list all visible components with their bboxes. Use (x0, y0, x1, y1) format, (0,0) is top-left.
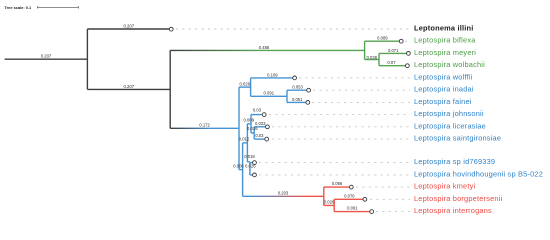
node N1 vertical (250, 115, 252, 133)
leaf node Leptospira hovindhougenii (253, 173, 257, 177)
svg-text:0.203: 0.203 (278, 190, 289, 195)
svg-text:0.076: 0.076 (344, 193, 355, 198)
svg-text:0.089: 0.089 (377, 36, 388, 41)
svg-text:Leptospira biflexa: Leptospira biflexa (414, 36, 476, 45)
branch node N2 0.016 (251, 132, 254, 134)
branch node A 0.207 (87, 88, 170, 90)
leader line Leptospira wolffii (299, 77, 410, 79)
svg-text:0.026: 0.026 (245, 163, 256, 168)
leader line Leptospira borgpetersenii (370, 198, 410, 200)
leader line Leptospira fainei (312, 101, 410, 103)
node B vertical (238, 87, 240, 170)
wire root branch 0.207 (5, 58, 88, 60)
branch blue clade 0.172 (170, 127, 239, 129)
svg-text:0.207: 0.207 (41, 54, 52, 59)
branch node T 0.012 (243, 142, 248, 144)
svg-text:0.026: 0.026 (324, 200, 335, 205)
leader line Leptospira johnsonii (269, 114, 410, 116)
branch Leptospira meyeri 0.071 (379, 52, 407, 54)
svg-text:0.071: 0.071 (388, 48, 399, 53)
svg-text:0.03: 0.03 (255, 133, 264, 138)
wire root vertical (86, 29, 88, 89)
leader line Leptospira saintgironsiae (272, 138, 410, 140)
node G vertical (364, 41, 366, 59)
branch Leptonema illini 0.207 (87, 28, 170, 30)
species name labels (414, 24, 543, 216)
branch Leptospira sp id769339 (250, 162, 253, 164)
svg-text:Leptospira sp id769339: Leptospira sp id769339 (414, 157, 495, 166)
branch Leptospira saintgironsiae 0.03 (254, 138, 265, 140)
svg-text:Leptonema illini: Leptonema illini (414, 24, 473, 33)
branch Leptospira interrogans 0.091 (334, 211, 370, 213)
node C vertical (250, 78, 252, 96)
leader line Leptospira biflexa (405, 40, 411, 42)
svg-text:0.016: 0.016 (247, 126, 258, 131)
node T vertical (246, 124, 248, 162)
svg-text:Leptospira hovindhougenii sp B: Leptospira hovindhougenii sp B5-022 (414, 169, 543, 178)
svg-text:Leptospira interrogans: Leptospira interrogans (414, 206, 492, 215)
svg-text:0.109: 0.109 (267, 72, 278, 77)
svg-text:0.066: 0.066 (332, 181, 343, 186)
svg-text:0.029: 0.029 (240, 82, 251, 87)
branch Leptospira johnsonii 0.03 (251, 114, 263, 116)
leaf node Leptospira wolffii (293, 76, 297, 80)
node E vertical (323, 187, 325, 205)
svg-text:0.006: 0.006 (233, 163, 244, 168)
tree scale bar (38, 6, 79, 9)
branch node N1 0.009 (247, 123, 251, 125)
svg-text:0.486: 0.486 (259, 45, 270, 50)
branch length value labels (41, 23, 399, 210)
node A vertical (169, 50, 171, 128)
branch Leptospira licerasiae 0.033 (254, 126, 266, 128)
branch node V 0.018 (247, 161, 250, 163)
leaf node Leptospira borgpetersenii (363, 197, 367, 201)
leaf node Leptonema illini (169, 27, 173, 31)
leader line Leptospira sp id769339 (259, 162, 410, 164)
branch node X 0.006 (239, 169, 243, 171)
svg-text:0.03: 0.03 (253, 108, 262, 113)
svg-text:0.036: 0.036 (367, 55, 378, 60)
branch Leptospira kmetyi 0.066 (324, 186, 350, 188)
dashed leader lines (176, 29, 411, 212)
leader line Leptospira inadai (313, 89, 410, 91)
node E2 vertical (333, 199, 335, 211)
leader line Leptospira licerasiae (272, 126, 410, 128)
svg-text:Leptospira johnsonii: Leptospira johnsonii (414, 109, 484, 118)
leaf circles (169, 27, 410, 213)
branch node D 0.091 (251, 95, 287, 97)
leaf node Leptospira wolbachii (406, 64, 410, 68)
svg-text:0.207: 0.207 (124, 23, 135, 28)
svg-text:Leptospira wolffii: Leptospira wolffii (414, 72, 473, 81)
branch red clade 0.203 (243, 195, 324, 197)
leader line Leptonema illini (176, 28, 410, 30)
leaf node Leptospira licerasiae (266, 125, 270, 129)
leaf node Leptospira johnsonii (262, 113, 266, 117)
leaf node Leptospira kmetyi (349, 185, 353, 189)
svg-text:Leptospira wolbachii: Leptospira wolbachii (414, 60, 485, 69)
svg-text:Leptospira borgpetersenii: Leptospira borgpetersenii (414, 194, 503, 203)
svg-text:0.053: 0.053 (292, 85, 303, 90)
svg-text:0.012: 0.012 (239, 137, 250, 142)
svg-text:0.07: 0.07 (387, 60, 396, 65)
svg-text:Leptospira fainei: Leptospira fainei (414, 97, 472, 106)
node V vertical (249, 163, 251, 175)
branch Leptospira biflexa 0.089 (365, 40, 401, 42)
svg-text:Leptospira meyeri: Leptospira meyeri (414, 48, 476, 57)
node N2 vertical (253, 127, 255, 139)
node X vertical (242, 143, 244, 196)
svg-text:Leptospira inadai: Leptospira inadai (414, 85, 474, 94)
svg-text:Leptospira licerasiae: Leptospira licerasiae (414, 121, 486, 130)
branch Leptospira wolbachii 0.07 (379, 65, 406, 67)
leaf node Leptospira saintgironsiae (265, 137, 269, 141)
svg-text:0.051: 0.051 (292, 97, 303, 102)
leaf node Leptospira meyeri (407, 52, 411, 56)
branch green clade 0.486 (170, 49, 364, 51)
svg-text:Leptospira kmetyi: Leptospira kmetyi (414, 182, 475, 191)
leaf node Leptospira biflexa (399, 39, 403, 43)
svg-text:Leptospira saintgironsiae: Leptospira saintgironsiae (414, 134, 501, 143)
svg-text:0.091: 0.091 (347, 206, 358, 211)
branch node G2 0.036 (365, 59, 379, 61)
branch Leptospira inadai 0.053 (287, 89, 307, 91)
branch Leptospira wolffii 0.109 (251, 77, 294, 79)
branch Leptospira borgpetersenii 0.076 (334, 198, 363, 200)
svg-text:0.207: 0.207 (124, 84, 135, 89)
leaf node Leptospira sp id769339 (253, 161, 257, 165)
svg-text:0.033: 0.033 (255, 121, 266, 126)
branch Leptospira hovindhougenii 0.026 (250, 174, 253, 176)
leaf node Leptospira fainei (306, 101, 310, 105)
branch node C 0.029 (239, 86, 251, 88)
svg-text:0.091: 0.091 (264, 91, 275, 96)
node G2 vertical (378, 53, 380, 65)
leader line Leptospira interrogans (376, 211, 410, 213)
leaf node Leptospira inadai (307, 88, 311, 92)
svg-text:0.172: 0.172 (199, 123, 210, 128)
leader line Leptospira kmetyi (356, 186, 410, 188)
leaf node Leptospira interrogans (370, 210, 374, 214)
svg-text:0.009: 0.009 (244, 118, 255, 123)
svg-text:Tree scale: 0.1: Tree scale: 0.1 (5, 5, 32, 10)
leader line Leptospira hovindhougenii (259, 174, 410, 176)
node D vertical (286, 90, 288, 102)
branch node E2 0.026 (324, 204, 334, 206)
branch Leptospira fainei 0.051 (287, 101, 306, 103)
svg-text:0.018: 0.018 (244, 154, 255, 159)
